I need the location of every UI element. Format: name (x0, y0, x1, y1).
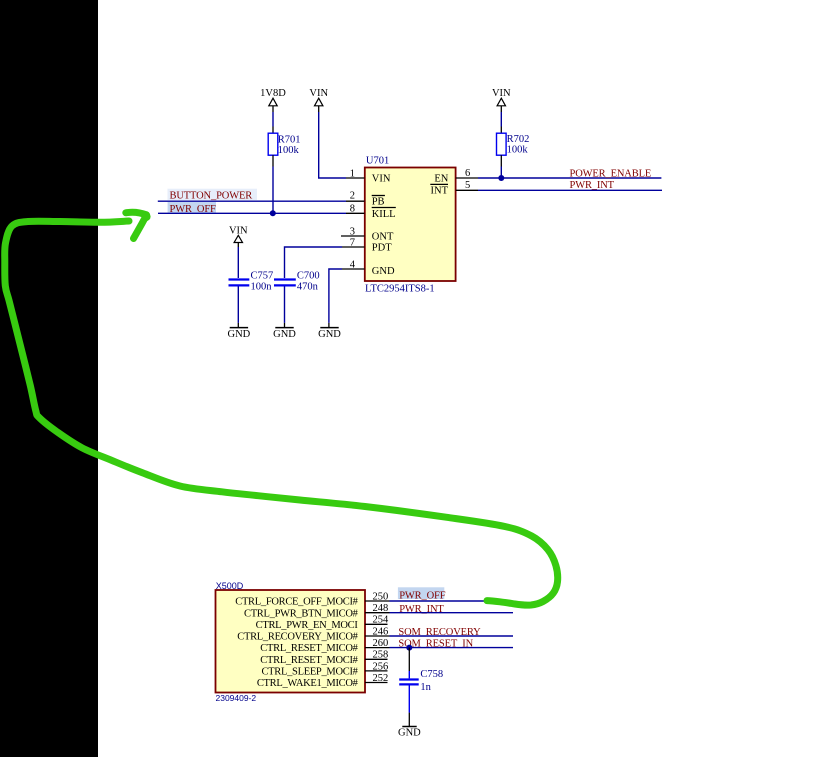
capacitor C758 (399, 669, 443, 693)
svg-text:470n: 470n (297, 282, 319, 293)
svg-text:6: 6 (465, 168, 470, 179)
svg-text:GND: GND (228, 329, 251, 340)
wire PWR_INT (lower) (390, 612, 514, 614)
svg-text:7: 7 (350, 238, 355, 249)
wire 1V8D to R701 (272, 112, 274, 127)
pin 8 KILL (346, 203, 396, 220)
svg-text:254: 254 (372, 615, 389, 626)
svg-text:LTC2954ITS8-1: LTC2954ITS8-1 (365, 283, 435, 294)
svg-text:R701: R701 (278, 134, 301, 145)
svg-text:CTRL_FORCE_OFF_MOCI#: CTRL_FORCE_OFF_MOCI# (235, 597, 358, 608)
pin lead R702 bottom (500, 155, 502, 166)
IC U701 body (365, 168, 456, 282)
svg-text:GND: GND (318, 329, 341, 340)
svg-text:U701: U701 (366, 155, 389, 166)
pin lead R701 bottom (272, 155, 274, 166)
svg-text:BUTTON_POWER: BUTTON_POWER (170, 191, 253, 202)
svg-text:100k: 100k (507, 144, 529, 155)
capacitor C757 (229, 271, 274, 293)
pin 252 CTRL_WAKE1_MICO# (257, 673, 388, 689)
annotation green arrowhead (126, 212, 147, 238)
svg-text:1n: 1n (420, 682, 431, 693)
svg-text:CTRL_RECOVERY_MICO#: CTRL_RECOVERY_MICO# (237, 632, 358, 643)
capacitor C700 (274, 271, 320, 293)
svg-text:5: 5 (465, 180, 470, 191)
pin 7 PDT (342, 238, 392, 254)
svg-text:100n: 100n (251, 282, 273, 293)
svg-text:PWR_OFF: PWR_OFF (399, 590, 446, 601)
pin 2 PB (346, 191, 385, 208)
wire PWR_INT (478, 189, 662, 191)
power port VIN (top middle) (309, 88, 328, 112)
wire GND pin 4 (329, 269, 342, 323)
sidebar (0, 0, 98, 757)
junction node (406, 645, 412, 651)
svg-text:CTRL_RESET_MICO#: CTRL_RESET_MICO# (260, 643, 358, 654)
svg-text:INT: INT (431, 186, 449, 197)
ground GND (middle) (273, 323, 296, 340)
svg-text:GND: GND (372, 266, 395, 277)
wire BUTTON_POWER (158, 200, 346, 202)
power port 1V8D (260, 88, 286, 112)
svg-text:PB: PB (372, 197, 385, 208)
pin 254 CTRL_PWR_EN_MOCI (256, 615, 389, 631)
svg-text:CTRL_PWR_EN_MOCI: CTRL_PWR_EN_MOCI (256, 620, 359, 631)
svg-text:246: 246 (372, 626, 388, 637)
resistor R701 (268, 133, 300, 156)
connector X500D body (216, 590, 366, 693)
ground GND (right) (318, 323, 341, 340)
junction node (270, 210, 276, 216)
svg-text:4: 4 (350, 260, 356, 271)
svg-text:CTRL_SLEEP_MOCI#: CTRL_SLEEP_MOCI# (261, 667, 358, 678)
svg-text:260: 260 (372, 638, 388, 649)
resistor R702 (497, 133, 530, 155)
svg-text:2: 2 (350, 191, 355, 202)
highlight PWR_OFF (lower) (398, 587, 444, 599)
ground GND (lower) (398, 727, 421, 739)
svg-text:PWR_INT: PWR_INT (570, 180, 615, 191)
svg-text:248: 248 (372, 603, 388, 614)
highlight PWR_OFF (168, 202, 216, 213)
pin lead R702 top (500, 127, 502, 134)
wire C757 to GND (237, 287, 239, 323)
wire junction to C758 (408, 648, 410, 671)
svg-text:EN: EN (434, 174, 448, 185)
svg-text:1: 1 (350, 169, 355, 180)
svg-text:8: 8 (350, 203, 355, 214)
wire VIN to pin 1 (319, 112, 346, 178)
svg-text:CTRL_RESET_MOCI#: CTRL_RESET_MOCI# (260, 655, 358, 666)
power port VIN (above C757) (229, 226, 248, 248)
pin 246 CTRL_RECOVERY_MICO# (237, 626, 389, 642)
pin 4 GND (342, 260, 395, 277)
svg-text:100k: 100k (278, 145, 300, 156)
svg-text:3: 3 (350, 227, 355, 238)
highlight BUTTON_POWER (faint) (168, 189, 258, 200)
wire R702 to POWER_ENABLE (500, 167, 502, 179)
wire VIN to R702 (500, 112, 502, 127)
svg-text:GND: GND (398, 728, 421, 739)
wire POWER_ENABLE (478, 177, 661, 179)
svg-text:POWER_ENABLE: POWER_ENABLE (570, 169, 652, 180)
pin 6 EN (434, 168, 478, 184)
ground GND (left) (228, 323, 251, 340)
pin 258 CTRL_RESET_MOCI# (260, 650, 388, 666)
svg-text:CTRL_WAKE1_MICO#: CTRL_WAKE1_MICO# (257, 678, 359, 689)
pin lead R701 top (272, 127, 274, 134)
svg-text:PDT: PDT (372, 242, 392, 253)
svg-text:ONT: ONT (372, 231, 394, 242)
wire PWR_OFF (158, 212, 346, 214)
wire R701 to PWR_OFF net (272, 167, 274, 214)
wire C700 to GND (284, 287, 286, 323)
svg-text:GND: GND (273, 329, 296, 340)
wire PWR_OFF (lower) (390, 600, 509, 602)
pin 260 CTRL_RESET_MICO# (260, 638, 389, 654)
svg-text:C757: C757 (251, 271, 274, 282)
svg-text:C758: C758 (420, 669, 443, 680)
wire VIN to C757 (237, 247, 239, 278)
wire SOM_RESET_IN (390, 647, 514, 649)
svg-text:R702: R702 (507, 134, 530, 145)
pin 3 ONT (341, 227, 394, 243)
svg-text:250: 250 (372, 591, 388, 602)
svg-text:C700: C700 (297, 271, 320, 282)
pin 1 VIN (346, 169, 391, 185)
pin 5 INT (430, 180, 478, 197)
svg-text:KILL: KILL (372, 209, 396, 220)
junction node (498, 175, 504, 181)
svg-text:2309409-2: 2309409-2 (216, 693, 257, 703)
svg-text:256: 256 (372, 661, 388, 672)
svg-text:CTRL_PWR_BTN_MICO#: CTRL_PWR_BTN_MICO# (244, 608, 359, 619)
power port VIN (right) (492, 88, 511, 112)
svg-text:258: 258 (372, 650, 388, 661)
wire C758 to GND (408, 686, 410, 713)
svg-text:252: 252 (372, 673, 388, 684)
annotation green curve (5, 221, 558, 605)
pin 250 CTRL_FORCE_OFF_MOCI# (235, 591, 389, 607)
pin 248 CTRL_PWR_BTN_MICO# (244, 603, 390, 619)
pin 256 CTRL_SLEEP_MOCI# (261, 661, 388, 677)
wire SOM_RECOVERY (390, 635, 514, 637)
svg-text:VIN: VIN (372, 173, 391, 184)
wire PDT net (285, 247, 343, 278)
